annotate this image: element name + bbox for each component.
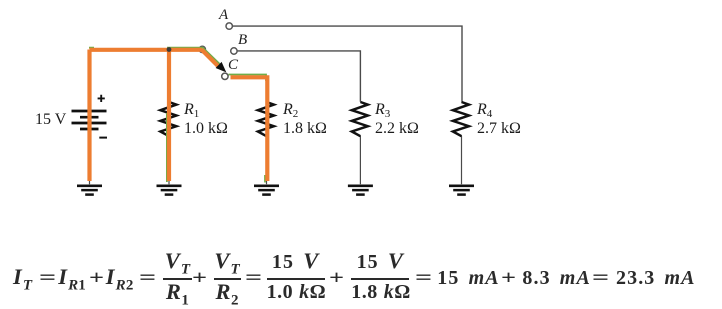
label: R1 name [184,102,199,118]
label: terminal A [219,8,228,23]
equation fraction VT/R2 [214,249,241,306]
ground: R4 [449,186,474,195]
terminal A circle [226,23,232,29]
switch arrowhead [216,62,227,73]
label: R2 value [283,121,327,137]
label: R3 name [375,102,390,118]
highlight orange: battery column [87,50,91,182]
ground: R2 [254,186,279,195]
label: R4 name [477,102,492,118]
terminal B circle [231,48,237,54]
equation fraction 15V/1.8kOhm [351,249,409,305]
wire: R4 bottom [461,136,463,184]
resistor R2 zigzag [258,102,274,136]
battery plus sign [98,95,105,102]
wire: R1 column [168,50,170,185]
terminal C circle [222,73,228,79]
highlight orange: top wire [90,48,203,52]
label: R1 value [184,121,228,137]
highlight orange: R1 column [167,50,171,182]
wire: battery column [89,50,91,185]
equation fraction VT/R1 [163,249,192,306]
wire: R2 column [266,77,268,184]
wire: terminal B to R3 top [238,51,361,102]
label: terminal C [228,58,238,73]
resistor R4 zigzag [453,102,469,136]
equation fraction 15V/1.0kOhm [267,249,325,305]
label: R2 name [283,102,298,118]
label: R4 value [477,121,521,137]
label: terminal B [238,33,247,48]
label: R3 value [375,121,419,137]
resistor R3 zigzag [352,102,368,136]
switch pole circle (under highlight) [199,46,205,52]
highlight green: R2 column stub [264,175,266,183]
label: source 15 V [35,112,66,128]
highlight green: top wire, switch arm, C wire [89,48,266,81]
ground: R1 [157,186,182,195]
highlight green: R1 column lower [166,113,168,182]
battery minus sign [99,137,107,139]
ground: R3 [348,186,373,195]
battery VS plates [72,111,107,123]
equation main row [0,265,722,290]
highlight orange: C wire and R2 column [231,77,268,181]
highlight orange: switch arm diagonal [202,50,220,68]
junction dot at R1 top [167,47,172,52]
wire: terminal A to R4 top [233,26,462,102]
wire: R3 bottom [359,136,361,184]
resistor R1 zigzag [160,102,176,136]
ground: battery [77,186,102,195]
